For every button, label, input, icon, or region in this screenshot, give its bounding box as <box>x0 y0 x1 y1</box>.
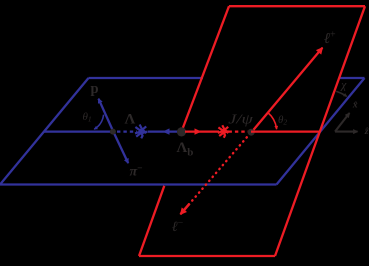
wire: blue plane left edge <box>0 78 89 185</box>
J/psi flight line: solid part from Lambda_b <box>185 130 219 132</box>
wire: blue plane right edge <box>277 78 365 185</box>
burst at Lambda decay <box>135 125 147 139</box>
svg-text:J/ψ: J/ψ <box>228 112 253 127</box>
svg-text:ẑ: ẑ <box>364 127 369 137</box>
svg-text:χ: χ <box>340 79 347 91</box>
l+ arrow <box>254 48 323 130</box>
theta1 angle arc with arrowhead <box>94 115 103 130</box>
wire: blue plane top edge left segment <box>89 77 204 79</box>
proton arrow <box>99 99 114 132</box>
wire: blue plane top edge right segment <box>340 77 365 79</box>
Lambda_b dot <box>177 127 186 136</box>
pi- arrow <box>113 132 128 164</box>
svg-text:p: p <box>91 81 99 97</box>
p / pi decay vertex dot <box>110 129 116 135</box>
wire: red plane right edge <box>275 6 365 256</box>
l- dotted line <box>189 137 247 204</box>
wire: red plane left edge lower visible part <box>139 186 164 256</box>
svg-text:Λ: Λ <box>125 112 136 128</box>
l- arrow solid tip <box>181 204 190 215</box>
blue decay plane (Lambda plane) <box>0 78 365 185</box>
svg-text:x̂: x̂ <box>352 100 358 111</box>
red decay plane (J/psi plane) <box>139 6 365 256</box>
wire: blue plane bottom edge <box>0 183 277 185</box>
wire: red plane bottom edge <box>139 255 275 257</box>
red midline from J/psi vertex to plane crossing <box>251 130 320 132</box>
Lambda flight line: solid part to Lambda_b <box>148 130 182 132</box>
burst at J/psi position <box>218 125 229 137</box>
arrowhead on J/psi line pointing right <box>195 128 202 134</box>
z axis arrow <box>335 131 358 133</box>
wire: blue midline from left edge to decay vertex <box>44 130 113 132</box>
wire: red plane left edge upper part <box>182 6 230 131</box>
theta2 angle arc with arrowhead <box>268 113 277 130</box>
J/psi flight line: dashed part <box>229 130 249 132</box>
arrowhead on Lambda line pointing left <box>163 128 170 134</box>
Lambda flight line: dashed part near decay vertex <box>117 130 137 132</box>
x axis arrow <box>335 113 350 132</box>
J/psi decay vertex dot <box>248 129 255 136</box>
chi angle arc with arrowhead <box>336 91 347 96</box>
wire: red plane top edge <box>229 5 365 7</box>
